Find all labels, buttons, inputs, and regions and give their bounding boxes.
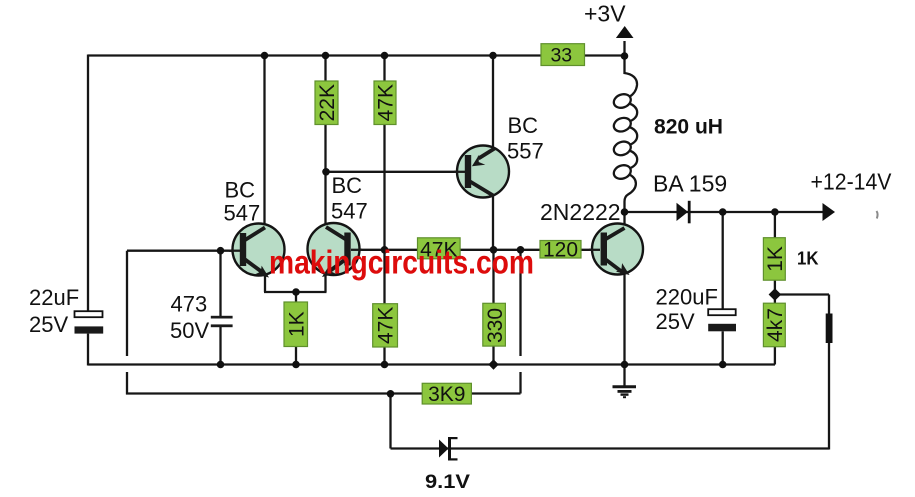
svg-text:22uF: 22uF xyxy=(29,285,79,310)
svg-text:2N2222: 2N2222 xyxy=(540,199,621,225)
svg-text:25V: 25V xyxy=(29,312,68,337)
svg-text:25V: 25V xyxy=(656,309,695,334)
svg-text:47K: 47K xyxy=(375,84,398,121)
svg-text:9.1V: 9.1V xyxy=(425,471,470,493)
svg-text:47K: 47K xyxy=(375,307,398,344)
svg-text:+3V: +3V xyxy=(584,1,626,27)
svg-text:330: 330 xyxy=(484,308,507,343)
svg-text:+12-14V: +12-14V xyxy=(811,169,893,195)
svg-text:BC: BC xyxy=(332,173,363,198)
svg-text:50V: 50V xyxy=(170,318,209,343)
svg-text:820 uH: 820 uH xyxy=(654,116,723,139)
svg-text:33: 33 xyxy=(550,44,572,66)
svg-text:3K9: 3K9 xyxy=(428,383,465,406)
svg-text:557: 557 xyxy=(507,139,544,164)
svg-text:547: 547 xyxy=(224,201,261,226)
svg-text:BA 159: BA 159 xyxy=(653,171,727,197)
svg-text:makingcircuits.com: makingcircuits.com xyxy=(269,245,534,282)
svg-text:120: 120 xyxy=(543,239,578,262)
svg-text:473: 473 xyxy=(171,292,208,317)
svg-text:4k7: 4k7 xyxy=(764,308,787,342)
svg-text:1K: 1K xyxy=(285,311,308,337)
svg-text:BC: BC xyxy=(508,113,539,138)
svg-text:BC: BC xyxy=(225,178,256,203)
svg-text:1K: 1K xyxy=(797,248,819,269)
svg-text:547: 547 xyxy=(331,199,368,224)
svg-text:220uF: 220uF xyxy=(656,285,718,310)
svg-text:22K: 22K xyxy=(316,84,339,121)
svg-text:1K: 1K xyxy=(764,246,787,272)
